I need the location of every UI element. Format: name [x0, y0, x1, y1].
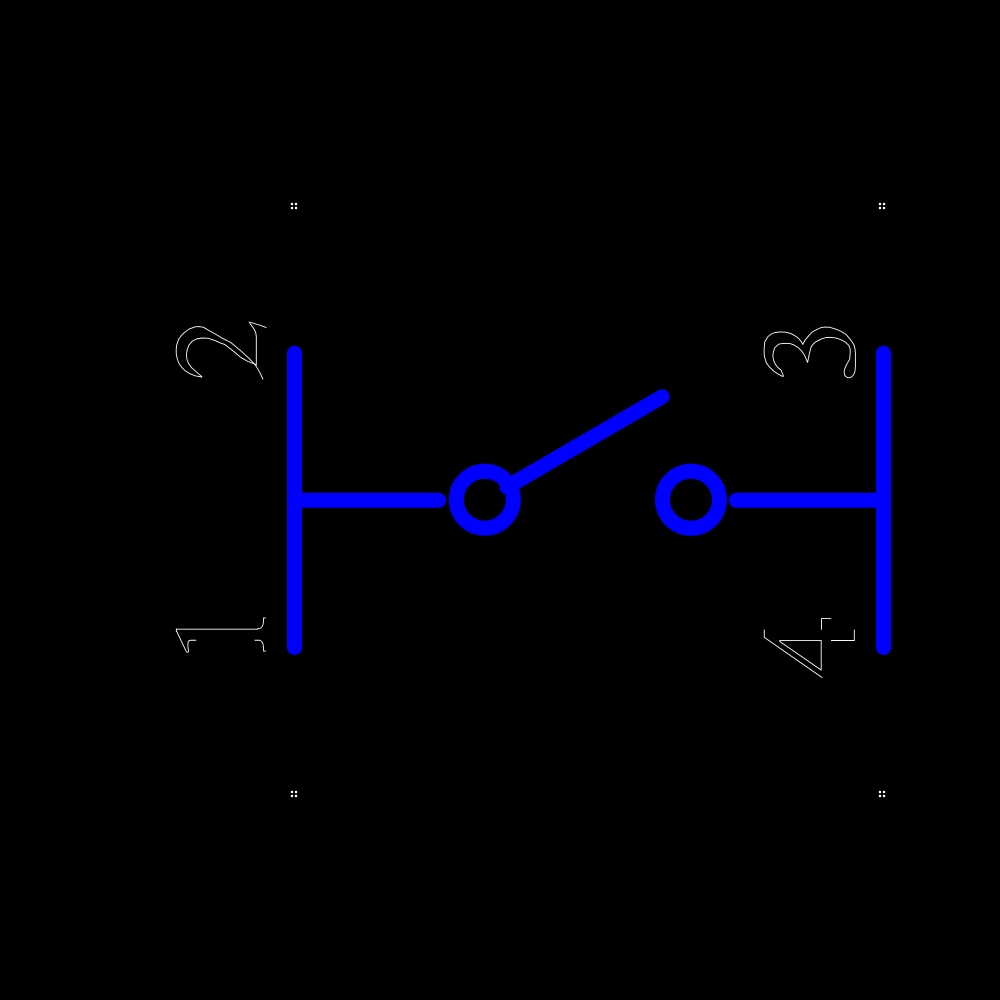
marker pin 3 endpoint [879, 203, 885, 209]
pin number 3 (top right) [764, 327, 855, 378]
apex face + outer diagonal [764, 630, 822, 678]
wire right horizontal [737, 493, 884, 508]
inner arc + inner diagonal [186, 338, 256, 377]
flag with curl [177, 631, 196, 652]
marker pin 4 endpoint [879, 791, 885, 797]
stem left edge lower + baseline edge [831, 630, 854, 641]
upper foot face [263, 617, 265, 619]
inner diagonal [780, 641, 822, 670]
pin bar 1-2 (left vertical bar) [287, 353, 302, 647]
pin endpoint markers (2x2 white dot clusters) [291, 203, 885, 797]
full outline [764, 327, 855, 378]
pin number 4 (bottom right) [764, 618, 854, 677]
wire left horizontal [295, 493, 439, 508]
switch arm [507, 397, 662, 487]
marker pin 2 endpoint [291, 203, 297, 209]
pin number 1 (bottom left) [176, 618, 265, 652]
beak inner + base top edge [250, 323, 256, 365]
beak outer [249, 322, 266, 327]
contact circle left [456, 471, 513, 528]
pin numbers: Hershey-style outline digits rotated 90deg CCW [176, 322, 855, 677]
marker pin 1 endpoint [291, 791, 297, 797]
stem left edge upper + crossbar top edge [780, 640, 822, 669]
lower foot bracket [255, 640, 264, 650]
outer arc + outer diagonal + tail [176, 327, 263, 380]
crossbar right of stem + end face [822, 618, 831, 629]
switch SW1 body [295, 353, 884, 647]
pin number 2 (top left) [176, 322, 266, 379]
contact circle right [663, 471, 720, 528]
apex face tick [175, 629, 177, 632]
lower foot face [263, 650, 265, 652]
pin bar 3-4 (right vertical bar) [876, 353, 891, 647]
stem [176, 628, 257, 630]
upper foot bracket [258, 619, 264, 629]
